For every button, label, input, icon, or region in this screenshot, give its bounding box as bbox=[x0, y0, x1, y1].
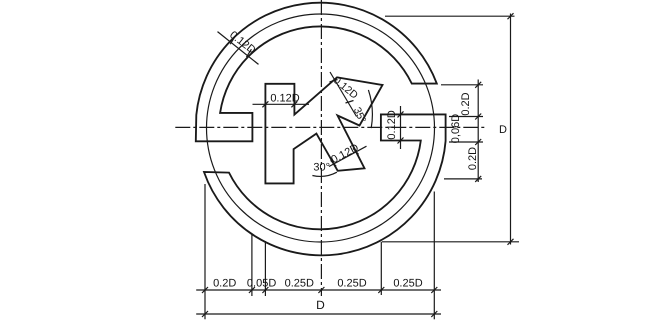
thin reference circle bbox=[207, 14, 435, 242]
tick row1 x252 bbox=[249, 287, 255, 293]
svg-text:D: D bbox=[499, 124, 507, 136]
tick upper arm a bbox=[330, 80, 338, 83]
horizontal centerline bbox=[175, 126, 486, 128]
dimension line 0.12D of K bar bbox=[253, 103, 310, 105]
tick row1 x265 bbox=[262, 287, 268, 293]
tick upper arm b bbox=[346, 101, 354, 104]
tick right D top bbox=[508, 13, 514, 19]
svg-text:30°: 30° bbox=[313, 162, 330, 174]
svg-text:0.2D: 0.2D bbox=[467, 147, 479, 170]
tick tab top bbox=[398, 111, 404, 117]
right stack extension line at band cut level bbox=[441, 84, 483, 86]
dimension 0.12D ring thickness (upper-left radial line) bbox=[218, 32, 259, 65]
30 degree angle arc bbox=[312, 172, 337, 176]
lower ring band with right tab bbox=[204, 114, 446, 255]
bottom extension line x265 (bar left edge) bbox=[264, 241, 266, 296]
tick lower arm a bbox=[331, 160, 337, 166]
dimension line 0.12D of lower arm bbox=[329, 146, 367, 166]
tick tab bottom bbox=[398, 138, 404, 144]
tick row2 x205 bbox=[202, 311, 208, 317]
tick right stack 3 bbox=[475, 139, 481, 145]
right stack extension line at tab top bbox=[449, 116, 483, 118]
right stack extension line at tab bottom bbox=[449, 141, 483, 143]
svg-text:0.12D: 0.12D bbox=[270, 93, 299, 105]
svg-text:0.12D: 0.12D bbox=[386, 110, 398, 139]
tick right stack 2 bbox=[475, 114, 481, 120]
tick row1 x205 bbox=[202, 287, 208, 293]
tick on outer arc bbox=[230, 36, 235, 44]
tick row1 x434 bbox=[431, 287, 437, 293]
bottom extension line x434 (right) bbox=[433, 192, 435, 320]
tick right stack 4 bbox=[475, 176, 481, 182]
svg-text:0,06D: 0,06D bbox=[450, 114, 462, 143]
tick right D bottom bbox=[508, 239, 514, 245]
bottom extension line x381 bbox=[380, 242, 382, 295]
bottom dimension line row2 D bbox=[196, 313, 441, 315]
tick at bar left edge bbox=[262, 101, 268, 107]
dimension line 0.12D of right tab bbox=[400, 106, 402, 149]
upper ring band with left foot bbox=[196, 3, 437, 142]
tick right stack 1 bbox=[475, 82, 481, 88]
right D extension line top bbox=[385, 15, 515, 17]
bottom extension line x205 (circle left) bbox=[204, 184, 206, 319]
tick lower arm b bbox=[353, 148, 359, 154]
svg-text:D: D bbox=[316, 298, 325, 312]
right stack dimension line bbox=[477, 80, 479, 183]
svg-text:0.05D: 0.05D bbox=[247, 278, 276, 290]
svg-text:0.2D: 0.2D bbox=[460, 92, 472, 115]
tick on inner arc bbox=[246, 49, 251, 57]
svg-text:0.2D: 0.2D bbox=[213, 278, 236, 290]
dimension line 0.12D of upper arm bbox=[330, 72, 357, 117]
bottom extension line x252 (foot right edge) bbox=[251, 234, 253, 296]
35 degree angle arc bbox=[368, 90, 372, 128]
svg-text:0.25D: 0.25D bbox=[393, 278, 422, 290]
right stack extension line lower bbox=[444, 178, 482, 180]
bottom dimension line row1 bbox=[196, 289, 441, 291]
svg-text:0.12D: 0.12D bbox=[329, 142, 361, 166]
tick row2 x434 bbox=[431, 311, 437, 317]
right D dimension line bbox=[510, 14, 512, 245]
tick at bar right edge bbox=[291, 101, 297, 107]
svg-text:0.25D: 0.25D bbox=[285, 278, 314, 290]
svg-text:0.25D: 0.25D bbox=[337, 278, 366, 290]
tick row1 x381 bbox=[378, 287, 384, 293]
right D extension line bottom bbox=[382, 241, 519, 243]
tick row1 x321 bbox=[318, 287, 324, 293]
vertical centerline bbox=[320, 0, 322, 296]
K lightning shape bbox=[265, 77, 382, 183]
